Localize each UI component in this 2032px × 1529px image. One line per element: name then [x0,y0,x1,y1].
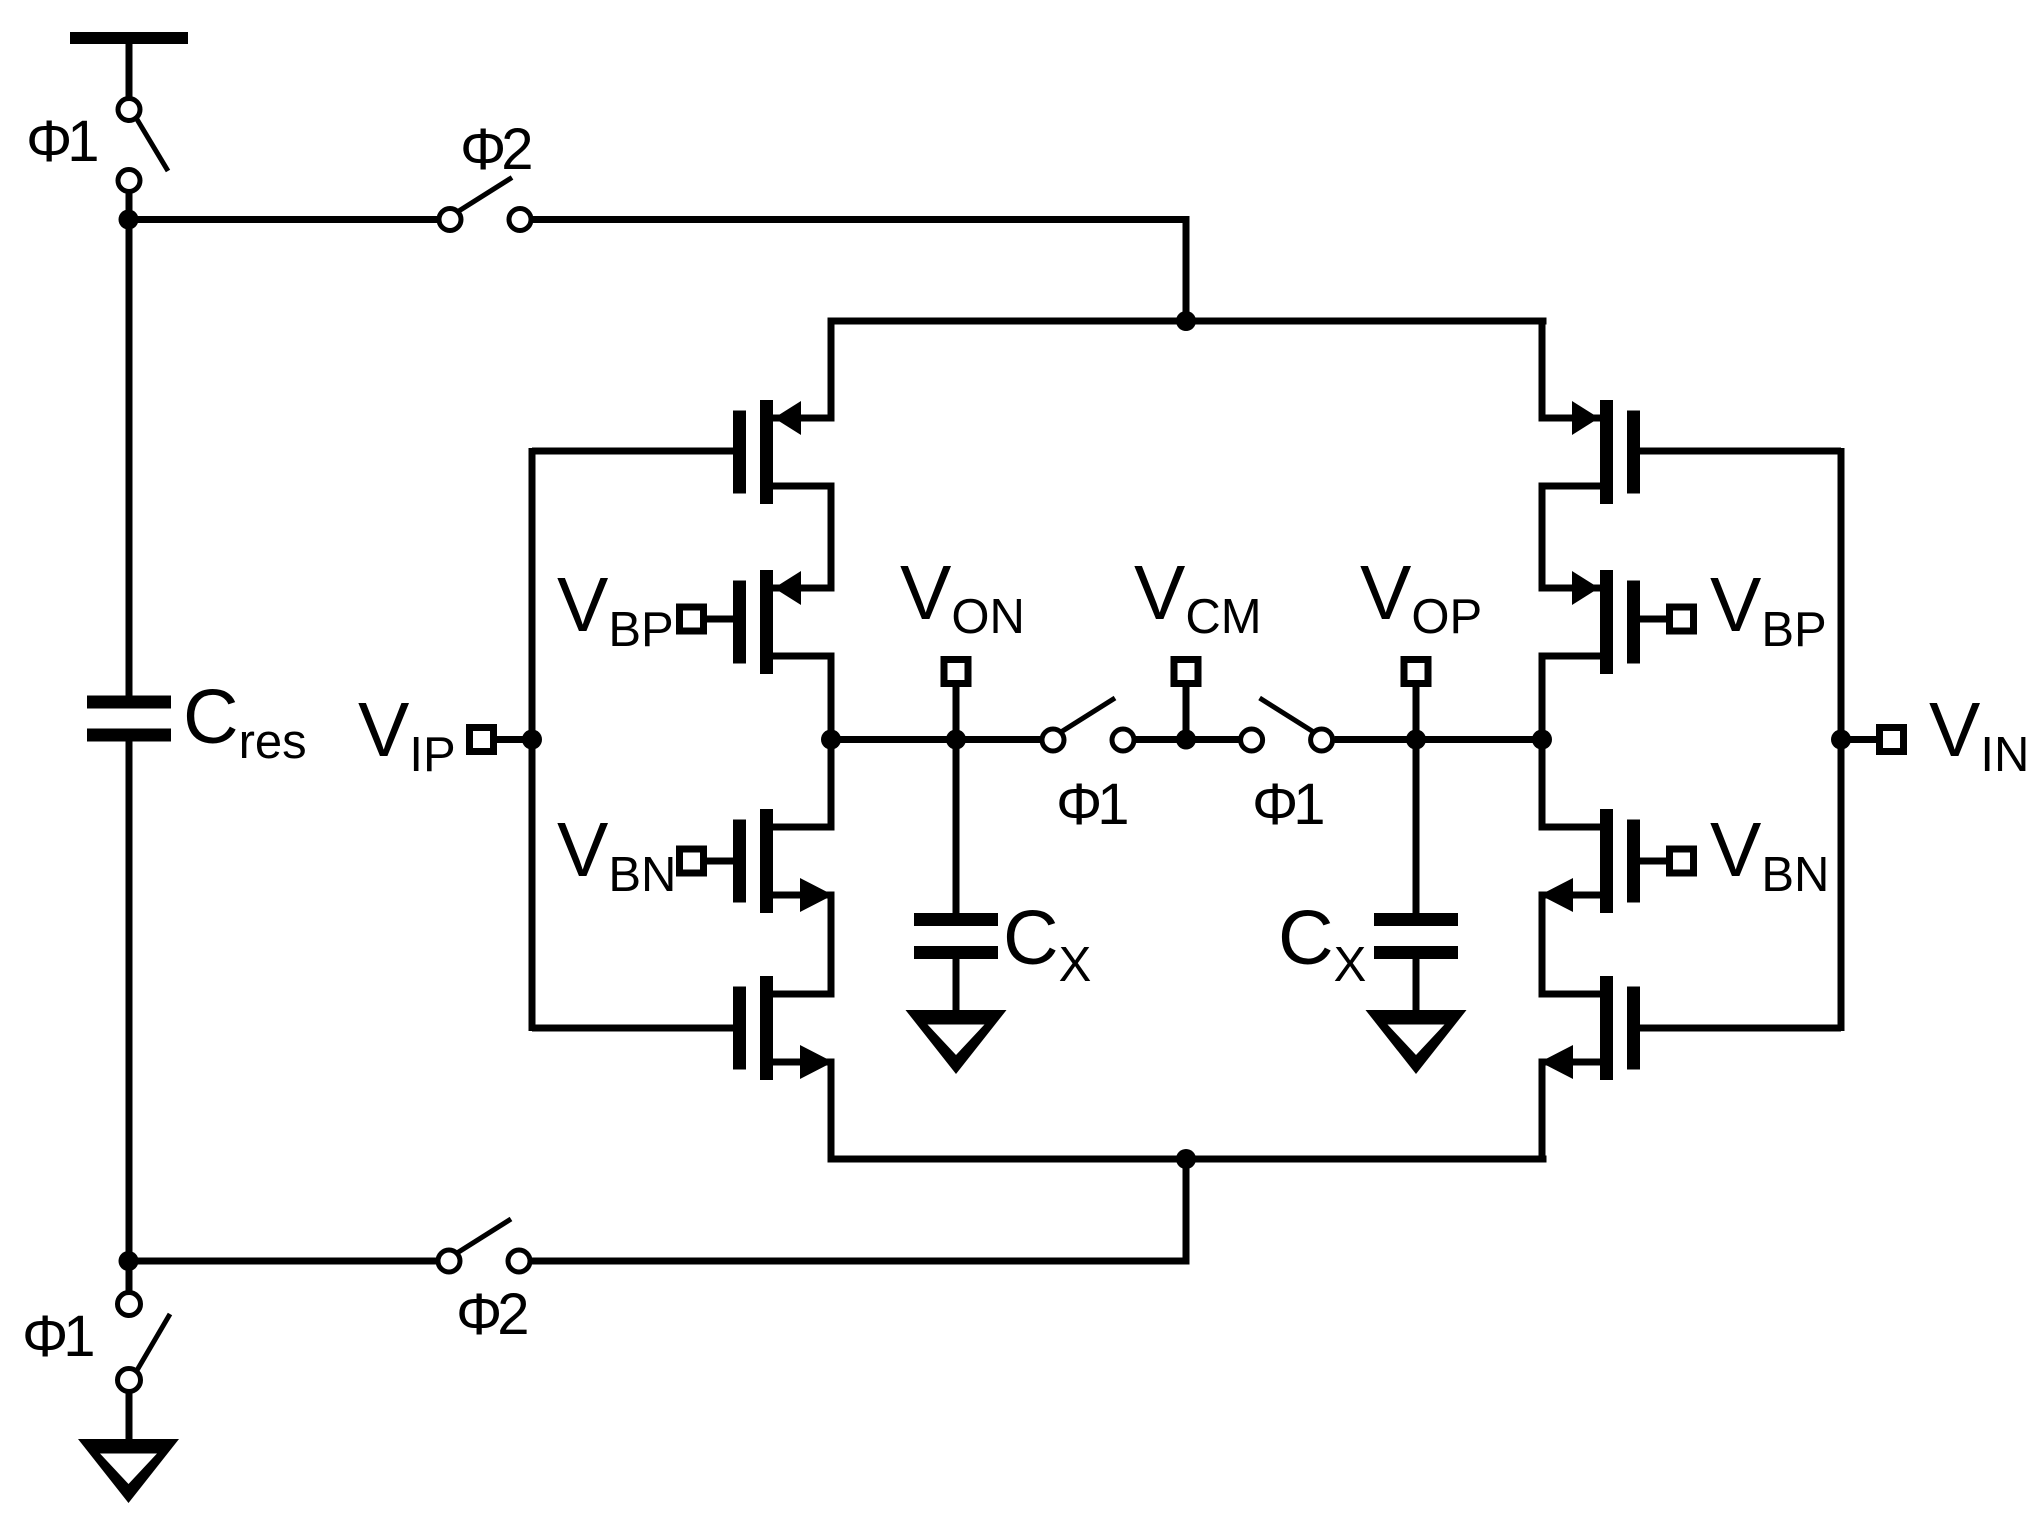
svg-text:Φ2: Φ2 [460,117,531,182]
svg-text:Φ1: Φ1 [22,1304,93,1369]
svg-text:Φ1: Φ1 [1056,772,1127,837]
svg-text:Φ2: Φ2 [456,1282,527,1347]
svg-text:Φ1: Φ1 [1252,772,1323,837]
svg-text:Φ1: Φ1 [26,109,97,174]
